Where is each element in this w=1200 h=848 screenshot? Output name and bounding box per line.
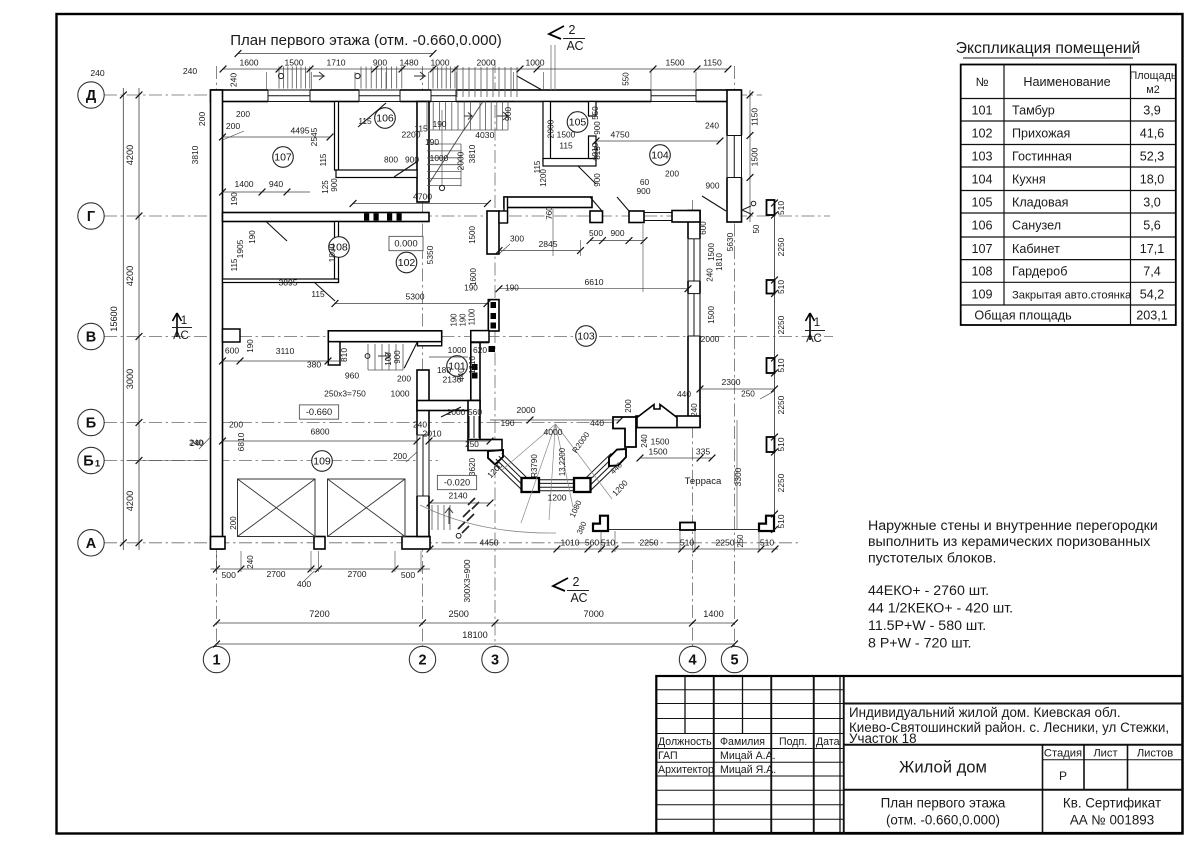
svg-text:м2: м2 (1146, 84, 1159, 96)
svg-text:200: 200 (236, 109, 250, 119)
svg-text:1: 1 (814, 317, 820, 329)
svg-text:440: 440 (677, 389, 691, 399)
svg-text:115: 115 (230, 258, 239, 271)
svg-text:200: 200 (393, 451, 407, 461)
title block left grid rows (656, 689, 843, 691)
door leaf bathroom window W2 (358, 103, 386, 127)
svg-text:1000: 1000 (430, 153, 449, 163)
svg-text:АА № 001893: АА № 001893 (1070, 813, 1154, 828)
door opening room 106 (394, 171, 416, 177)
window garage west wall (spine) (416, 435, 430, 496)
svg-text:115: 115 (311, 289, 325, 299)
colonnade post east 4 (767, 437, 775, 452)
svg-text:200: 200 (229, 516, 238, 530)
svg-text:2140: 2140 (448, 491, 467, 501)
room bubble 106 (375, 108, 396, 129)
svg-text:4010: 4010 (590, 142, 600, 161)
svg-text:960: 960 (345, 371, 360, 381)
main staircase left flight treads (426, 102, 428, 131)
svg-text:500: 500 (222, 570, 237, 580)
svg-text:190: 190 (425, 137, 439, 147)
svg-text:102: 102 (971, 126, 992, 140)
garage bottom wall pier right (402, 537, 430, 550)
svg-text:54,2: 54,2 (1140, 287, 1165, 301)
vent shaft wall on axis 3 (488, 300, 499, 331)
svg-text:Закрытая авто.стоянка: Закрытая авто.стоянка (1012, 289, 1132, 301)
svg-text:1150: 1150 (703, 58, 722, 68)
porch arrow 1 (313, 72, 324, 80)
svg-text:600: 600 (699, 221, 708, 235)
terrace dims 1500 335 3300 (640, 457, 712, 459)
axis bubble G (78, 203, 104, 229)
svg-text:1800: 1800 (327, 243, 337, 262)
svg-text:190: 190 (459, 313, 468, 327)
svg-text:5: 5 (730, 653, 738, 669)
axis line A (104, 542, 800, 544)
svg-text:104: 104 (651, 150, 669, 162)
svg-text:900: 900 (593, 173, 602, 187)
svg-text:выполнить из керамических пори: выполнить из керамических поризованных (868, 534, 1150, 550)
entrance door opening top wall (514, 91, 541, 101)
svg-text:7000: 7000 (583, 609, 603, 619)
tambour south wall (417, 401, 480, 411)
svg-text:1810: 1810 (468, 356, 477, 374)
drain circle left (278, 73, 283, 78)
misc small black door symbols (489, 346, 496, 352)
svg-text:Листов: Листов (1137, 748, 1173, 760)
kitchen right window chain (749, 90, 751, 222)
svg-text:104: 104 (971, 172, 992, 186)
kitchen south wall east piece (672, 211, 700, 223)
tambour north wall left step down (328, 342, 340, 365)
room 107 window dim line (223, 136, 331, 138)
svg-text:810: 810 (339, 348, 349, 362)
axis line B (104, 422, 700, 424)
svg-text:5350: 5350 (425, 245, 435, 264)
svg-text:440: 440 (457, 368, 466, 382)
svg-text:18100: 18100 (462, 630, 488, 640)
svg-text:В: В (86, 330, 96, 346)
svg-text:Наружные стены и внутренние пе: Наружные стены и внутренние перегородки (868, 518, 1158, 534)
right colonnade dimension chain (771, 200, 778, 207)
tambour steps 250x3 (367, 344, 369, 370)
svg-text:6610: 6610 (584, 277, 603, 287)
svg-text:900: 900 (405, 155, 419, 165)
svg-text:510: 510 (776, 358, 786, 372)
svg-text:900: 900 (330, 178, 339, 192)
svg-text:5630: 5630 (725, 232, 735, 251)
drain circle right (355, 73, 360, 78)
svg-text:2: 2 (573, 575, 580, 589)
tambour east wall lower extension (468, 401, 480, 442)
wall axis G left part (rooms 107/108) (223, 213, 430, 222)
svg-text:АС: АС (806, 333, 822, 345)
room schedule table frame (961, 65, 1176, 326)
wide opening sill living-kitchen (644, 212, 688, 214)
svg-text:Общая площадь: Общая площадь (974, 309, 1072, 323)
svg-text:2000: 2000 (701, 334, 720, 344)
door leaf room 106 (394, 162, 417, 177)
svg-text:1500: 1500 (651, 437, 670, 447)
axis line 3 (494, 60, 496, 646)
svg-text:Тамбур: Тамбур (1012, 103, 1055, 117)
axis bubble 1 (203, 646, 229, 672)
svg-text:107: 107 (971, 242, 992, 256)
room schedule verticals (1003, 65, 1005, 306)
tambour step arrow (378, 352, 390, 360)
svg-text:3810: 3810 (467, 144, 477, 163)
fireplace (637, 405, 677, 428)
svg-text:200: 200 (665, 169, 679, 179)
svg-text:300Х3=900: 300Х3=900 (462, 559, 472, 602)
svg-text:500: 500 (401, 570, 416, 580)
svg-text:Кухня: Кухня (1012, 172, 1046, 186)
svg-text:180: 180 (437, 365, 451, 375)
svg-text:1100: 1100 (468, 308, 477, 325)
svg-text:Кладовая: Кладовая (1012, 195, 1068, 209)
svg-text:4200: 4200 (125, 266, 135, 286)
left dimension chain outer 15600 (122, 88, 124, 550)
section mark 1 left (173, 313, 182, 337)
svg-text:115: 115 (358, 116, 372, 126)
axis bubble V (78, 323, 104, 349)
room bubble 102 (396, 252, 417, 273)
svg-text:4450: 4450 (479, 538, 498, 548)
svg-text:108: 108 (971, 265, 992, 279)
svg-text:510: 510 (776, 514, 786, 528)
axis line V (104, 336, 833, 338)
level mark -0.020 (437, 475, 476, 489)
svg-text:1500: 1500 (468, 226, 477, 244)
svg-text:2: 2 (418, 653, 426, 669)
axis bubble A (78, 530, 104, 556)
svg-text:106: 106 (971, 219, 992, 233)
svg-text:5,6: 5,6 (1143, 219, 1161, 233)
axis bubble B1 (78, 447, 104, 473)
svg-text:550: 550 (591, 106, 600, 120)
svg-text:Д: Д (86, 88, 97, 104)
svg-text:190: 190 (433, 119, 447, 129)
svg-text:250х3=750: 250х3=750 (324, 389, 366, 399)
tambour north wall (axis V) (328, 331, 441, 342)
svg-text:ГАП: ГАП (658, 750, 678, 762)
room bubble 107 (273, 147, 294, 168)
door opening room 108 (313, 280, 335, 282)
svg-text:План первого этажа: План первого этажа (881, 796, 1006, 811)
svg-text:4700: 4700 (413, 192, 432, 202)
partition room 105 west (543, 102, 551, 163)
svg-text:Мицай Я.А.: Мицай Я.А. (720, 764, 776, 776)
svg-text:900: 900 (503, 107, 513, 121)
bottom bay-terrace dimension chain (430, 548, 778, 550)
svg-text:2000: 2000 (476, 58, 495, 68)
axis bubble 4 (679, 646, 705, 672)
svg-text:510: 510 (760, 538, 775, 548)
svg-text:А: А (86, 536, 97, 552)
staircase start circle (439, 185, 444, 190)
svg-text:3,9: 3,9 (1143, 103, 1161, 117)
svg-text:300: 300 (510, 234, 524, 244)
entrance door leaf (517, 76, 541, 90)
svg-text:250: 250 (741, 390, 755, 399)
svg-text:Б: Б (83, 454, 93, 470)
colonnade post east 2 (767, 280, 775, 294)
svg-text:Кв. Сертификат: Кв. Сертификат (1063, 796, 1161, 811)
garage bottom wall stub left (211, 537, 226, 550)
bay corner post right (574, 478, 591, 492)
svg-text:190: 190 (501, 418, 515, 428)
svg-text:пустотелых блоков.: пустотелых блоков. (868, 550, 996, 566)
garage entry steps 300x3 (431, 505, 433, 530)
svg-text:1000: 1000 (525, 58, 544, 68)
door opening room 105 east (590, 117, 596, 135)
bottom main chain line (217, 622, 735, 624)
exterior wall top (axis D) (211, 90, 741, 102)
svg-text:109: 109 (971, 287, 992, 301)
partition room 105 east upper (589, 102, 597, 117)
svg-text:4000: 4000 (543, 427, 562, 437)
porch steps group 2 (360, 67, 362, 89)
svg-text:1: 1 (95, 459, 101, 470)
dim 2140 with line (430, 502, 490, 504)
svg-text:115: 115 (559, 141, 573, 151)
svg-text:240: 240 (189, 438, 203, 448)
svg-text:900: 900 (393, 350, 402, 364)
garage doors dimension chain (211, 568, 431, 570)
top dimension chain line (223, 68, 728, 70)
porch steps group 1 (278, 67, 280, 89)
svg-text:240: 240 (690, 403, 699, 417)
svg-text:1810: 1810 (715, 253, 724, 271)
svg-text:900: 900 (637, 186, 651, 196)
svg-text:Дата: Дата (816, 736, 840, 748)
tambour steps edge (368, 369, 403, 371)
svg-text:План первого этажа (отм. -0.66: План первого этажа (отм. -0.660,0.000) (230, 32, 502, 49)
axis bubble 3 (482, 646, 508, 672)
svg-text:Кабинет: Кабинет (1012, 242, 1060, 256)
axis line 1 (216, 66, 218, 646)
svg-text:760: 760 (545, 206, 554, 220)
garage steps arrow (445, 508, 453, 524)
svg-text:500: 500 (589, 228, 603, 238)
porch steps group 4 (456, 67, 458, 97)
room bubble 104 (650, 145, 671, 166)
axis line G (104, 215, 830, 217)
svg-text:1500: 1500 (557, 130, 576, 140)
central spine wall lower (axis 2) (417, 370, 429, 537)
terrace east edge / dimension line (774, 203, 776, 530)
kitchen east wall (axis 5) (727, 90, 742, 222)
svg-text:1500: 1500 (665, 58, 684, 68)
staircase walk line with arrow (441, 110, 443, 185)
svg-text:Экспликация помещений: Экспликация помещений (956, 40, 1141, 57)
svg-text:105: 105 (569, 117, 587, 129)
room bubble 109 (312, 451, 333, 472)
section mark 2 bottom (553, 578, 568, 591)
svg-text:11.5Р+W - 580 шт.: 11.5Р+W - 580 шт. (868, 618, 986, 634)
svg-text:5300: 5300 (405, 292, 424, 302)
svg-text:Участок 18: Участок 18 (849, 731, 917, 746)
svg-text:1905: 1905 (235, 239, 245, 258)
svg-text:Индивидуальний жилой дом. Киев: Индивидуальний жилой дом. Киевская обл. (849, 705, 1121, 720)
tambour north wall right step (418, 342, 442, 346)
svg-text:250: 250 (465, 440, 479, 449)
wall piece east of tambour door (471, 331, 489, 343)
kitchen south wall west jog (504, 197, 508, 222)
bay east wall block (613, 417, 636, 447)
svg-text:800: 800 (384, 155, 398, 165)
svg-text:510: 510 (776, 280, 786, 294)
door leaf tambour (441, 407, 461, 417)
svg-text:4200: 4200 (125, 491, 135, 511)
svg-text:3810: 3810 (190, 145, 200, 164)
svg-text:3895: 3895 (278, 278, 297, 288)
bay window right diagonal band (589, 462, 620, 492)
pilaster on axis V at left wall (223, 329, 241, 342)
svg-text:250: 250 (736, 534, 745, 548)
room bubble 103 (576, 326, 597, 347)
svg-text:105: 105 (971, 195, 992, 209)
svg-text:18,0: 18,0 (1140, 172, 1165, 186)
svg-text:190: 190 (505, 284, 519, 293)
section mark 1 right (806, 313, 815, 340)
svg-text:4030: 4030 (475, 130, 494, 140)
door leaf 107-108 (266, 222, 287, 242)
svg-text:200: 200 (624, 399, 633, 413)
garage steps hatch marks (468, 498, 479, 509)
axis bubble 5 (721, 646, 747, 672)
axis line D (104, 94, 762, 96)
room bubble 108 (329, 237, 350, 258)
stage-sheet verticals (1042, 745, 1044, 833)
svg-text:17,1: 17,1 (1140, 242, 1165, 256)
svg-text:(отм. -0.660,0.000): (отм. -0.660,0.000) (886, 813, 1000, 828)
garage chain extension ticks (216, 551, 218, 572)
svg-text:2700: 2700 (266, 569, 285, 579)
svg-text:115: 115 (319, 153, 328, 166)
room bubble 105 (567, 112, 588, 133)
svg-text:2250: 2250 (715, 538, 734, 548)
section mark 2 top (549, 26, 564, 39)
svg-text:1600: 1600 (239, 58, 258, 68)
svg-text:2250: 2250 (776, 237, 786, 256)
svg-text:440: 440 (590, 418, 604, 428)
main staircase lower flight stringer (460, 144, 462, 187)
window living east 2 (687, 294, 701, 336)
svg-text:1500: 1500 (707, 306, 716, 324)
svg-text:2250: 2250 (776, 395, 786, 414)
window W2 top wall (359, 89, 400, 103)
svg-text:6800: 6800 (310, 427, 329, 437)
svg-text:15600: 15600 (109, 306, 119, 332)
svg-text:190: 190 (246, 339, 255, 353)
svg-text:2300: 2300 (721, 377, 740, 387)
svg-text:560: 560 (585, 538, 600, 548)
svg-text:107: 107 (274, 152, 292, 164)
svg-text:Г: Г (87, 209, 95, 225)
level mark -0.660 (299, 405, 338, 419)
svg-text:1: 1 (212, 653, 220, 669)
svg-text:АС: АС (566, 39, 583, 53)
svg-text:940: 940 (269, 179, 284, 189)
svg-text:1710: 1710 (326, 58, 345, 68)
door leaf kitchen (702, 196, 726, 211)
exterior wall left (axis 1) (211, 90, 223, 549)
svg-text:240: 240 (183, 66, 198, 76)
svg-text:50: 50 (752, 224, 761, 233)
garage steps circle (456, 533, 461, 538)
svg-text:№: № (976, 75, 989, 89)
wall block axis 3 step (499, 211, 508, 223)
svg-text:АС: АС (570, 591, 587, 605)
svg-text:510: 510 (601, 538, 616, 548)
svg-text:200: 200 (226, 121, 241, 131)
room schedule row lines (961, 98, 1176, 100)
svg-text:2250: 2250 (639, 538, 658, 548)
svg-text:1500: 1500 (707, 243, 716, 261)
svg-text:-0.660: -0.660 (306, 407, 332, 417)
svg-text:Гардероб: Гардероб (1012, 265, 1067, 279)
svg-text:1000: 1000 (447, 407, 466, 417)
svg-text:510: 510 (680, 538, 695, 548)
svg-text:41,6: 41,6 (1140, 126, 1165, 140)
garage bottom wall stub middle (314, 537, 325, 550)
svg-text:1480: 1480 (399, 58, 418, 68)
svg-text:1400: 1400 (703, 609, 723, 619)
svg-text:600: 600 (225, 346, 240, 356)
svg-text:2250: 2250 (776, 473, 786, 492)
svg-text:Лист: Лист (1093, 748, 1117, 760)
extension lines top windows to chain (266, 72, 268, 89)
terrace south edge (607, 529, 775, 531)
svg-text:2000: 2000 (516, 405, 535, 415)
svg-text:Подп.: Подп. (779, 736, 807, 748)
terrace corner post southwest (593, 516, 608, 531)
svg-text:2: 2 (569, 23, 576, 37)
terrace post south middle (680, 523, 695, 531)
svg-text:240: 240 (640, 434, 649, 448)
svg-text:2845: 2845 (538, 239, 557, 249)
title block outer frame (656, 676, 1182, 833)
axis line 4 (692, 200, 694, 646)
window W1 top wall (268, 89, 310, 103)
svg-text:Санузел: Санузел (1012, 219, 1061, 233)
svg-text:Площадь: Площадь (1130, 70, 1177, 82)
bay corner block west (488, 450, 503, 465)
svg-text:8 Р+W - 720 шт.: 8 Р+W - 720 шт. (868, 636, 971, 652)
room bubble 101 (447, 356, 468, 377)
door opening kitchen-living (701, 212, 726, 222)
level mark 0.000 (389, 236, 423, 250)
svg-text:Р: Р (1059, 769, 1067, 783)
svg-text:620: 620 (473, 345, 487, 355)
double door leaves kitchen-living (590, 197, 602, 211)
window W3 top wall (431, 89, 456, 103)
svg-text:Терраса: Терраса (685, 476, 722, 487)
svg-text:900: 900 (706, 181, 720, 191)
svg-text:900: 900 (611, 228, 625, 238)
title block left grid verticals (684, 676, 686, 734)
svg-text:115: 115 (533, 160, 542, 173)
svg-text:1000: 1000 (448, 345, 467, 355)
svg-text:240: 240 (229, 73, 239, 88)
bottom overall chain 18100 (217, 643, 735, 645)
svg-text:550: 550 (622, 72, 631, 86)
svg-text:3: 3 (491, 653, 499, 669)
svg-text:1500: 1500 (284, 58, 303, 68)
svg-text:Должность: Должность (658, 736, 712, 748)
svg-text:190: 190 (230, 192, 239, 206)
